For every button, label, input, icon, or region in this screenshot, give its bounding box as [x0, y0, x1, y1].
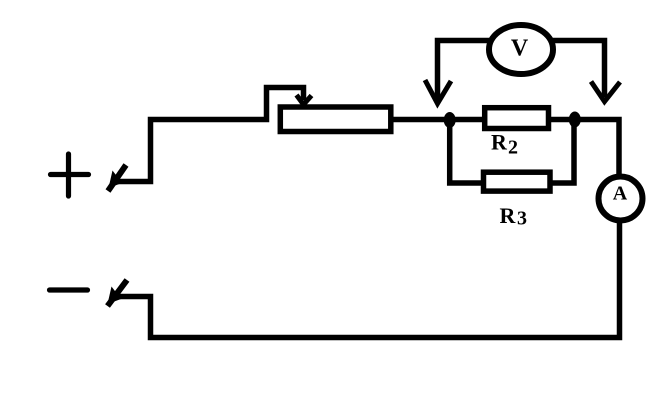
svg-text:2: 2 [508, 137, 518, 159]
svg-text:R: R [500, 203, 517, 228]
svg-text:R: R [491, 130, 508, 155]
svg-text:A: A [613, 183, 628, 205]
svg-text:3: 3 [517, 208, 527, 230]
svg-text:V: V [511, 36, 529, 62]
